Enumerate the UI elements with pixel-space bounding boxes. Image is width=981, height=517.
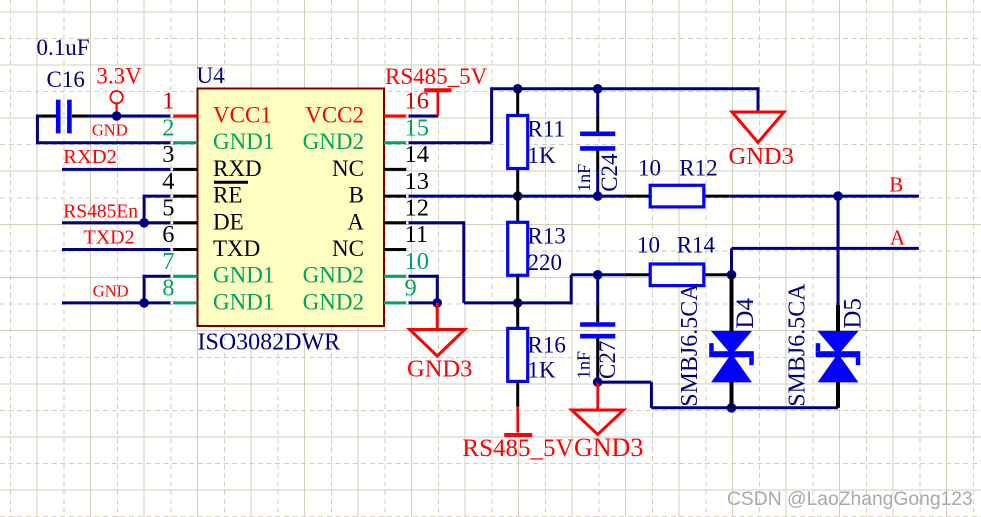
svg-text:12: 12 [405, 195, 430, 222]
svg-text:GND1: GND1 [213, 263, 274, 288]
svg-text:R13: R13 [528, 224, 566, 249]
svg-text:C16: C16 [47, 67, 85, 92]
svg-text:GND: GND [93, 282, 129, 301]
svg-text:R11: R11 [528, 116, 566, 141]
svg-text:NC: NC [332, 236, 364, 261]
svg-text:9: 9 [405, 275, 417, 302]
svg-text:1K: 1K [528, 143, 557, 168]
svg-text:RS485En: RS485En [63, 201, 138, 222]
svg-text:1nF: 1nF [574, 351, 594, 379]
svg-text:GND1: GND1 [213, 129, 274, 154]
svg-text:B: B [349, 183, 364, 208]
svg-text:TXD2: TXD2 [84, 226, 135, 248]
svg-text:TXD: TXD [213, 236, 260, 261]
svg-text:D5: D5 [839, 298, 866, 329]
svg-text:DE: DE [213, 209, 244, 234]
svg-text:R14: R14 [677, 233, 716, 258]
svg-text:C27: C27 [595, 341, 620, 379]
svg-text:GND2: GND2 [303, 289, 364, 314]
svg-text:RE: RE [213, 183, 242, 208]
svg-text:10: 10 [637, 233, 660, 258]
svg-text:0.1uF: 0.1uF [37, 35, 90, 60]
svg-text:RS485_5V: RS485_5V [385, 64, 488, 89]
svg-text:GND3: GND3 [574, 433, 643, 462]
svg-text:GND3: GND3 [729, 143, 794, 170]
svg-text:GND3: GND3 [407, 356, 472, 383]
svg-text:SMBJ6.5CA: SMBJ6.5CA [677, 283, 703, 407]
svg-text:U4: U4 [197, 63, 226, 88]
svg-text:10: 10 [405, 248, 430, 275]
svg-text:GND2: GND2 [303, 263, 364, 288]
svg-text:3: 3 [162, 141, 174, 168]
svg-text:SMBJ6.5CA: SMBJ6.5CA [785, 283, 811, 407]
svg-text:D4: D4 [732, 298, 759, 329]
svg-text:ISO3082DWR: ISO3082DWR [198, 330, 341, 356]
svg-text:VCC2: VCC2 [305, 103, 364, 128]
svg-text:5: 5 [162, 195, 174, 222]
svg-text:R12: R12 [679, 155, 717, 180]
svg-text:10: 10 [638, 155, 661, 180]
svg-text:GND2: GND2 [303, 129, 364, 154]
svg-text:B: B [889, 173, 903, 197]
svg-text:2: 2 [162, 114, 174, 141]
svg-text:GND: GND [92, 121, 128, 140]
svg-text:3.3V: 3.3V [96, 64, 142, 89]
svg-text:7: 7 [162, 248, 174, 275]
svg-text:NC: NC [332, 156, 364, 181]
svg-text:4: 4 [162, 168, 174, 195]
svg-text:13: 13 [405, 168, 430, 195]
svg-text:14: 14 [405, 141, 430, 168]
svg-text:R16: R16 [528, 333, 566, 358]
svg-text:15: 15 [405, 114, 430, 141]
svg-text:RXD2: RXD2 [63, 146, 117, 168]
svg-text:RXD: RXD [213, 156, 262, 181]
svg-text:VCC1: VCC1 [213, 103, 272, 128]
svg-text:1: 1 [162, 88, 174, 115]
svg-text:1nF: 1nF [574, 164, 594, 192]
svg-text:C24: C24 [597, 153, 622, 192]
svg-text:GND1: GND1 [213, 289, 274, 314]
svg-text:220: 220 [528, 250, 563, 275]
svg-text:6: 6 [162, 221, 174, 248]
svg-text:A: A [890, 225, 906, 249]
svg-text:8: 8 [162, 275, 174, 302]
svg-text:A: A [347, 209, 364, 234]
svg-text:11: 11 [405, 221, 429, 248]
svg-text:RS485_5V: RS485_5V [462, 435, 573, 462]
svg-text:CSDN @LaoZhangGong123: CSDN @LaoZhangGong123 [727, 489, 973, 510]
svg-text:1K: 1K [528, 358, 557, 383]
